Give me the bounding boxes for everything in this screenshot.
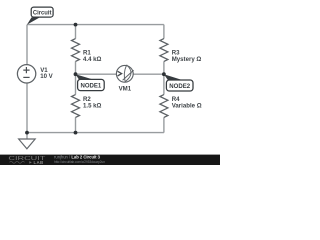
svg-text:NODE1: NODE1 <box>81 82 102 89</box>
wire voltmeter right <box>133 73 164 75</box>
resistor R3 <box>160 39 202 64</box>
node flag NODE2 <box>164 74 193 91</box>
wire left rail upper <box>26 25 28 65</box>
voltage source V1 <box>17 65 53 83</box>
svg-text:Mystery Ω: Mystery Ω <box>172 56 202 63</box>
voltmeter VM1 <box>116 65 133 93</box>
wire bottom rail <box>27 132 164 134</box>
node flag NODE1 <box>76 74 105 90</box>
wire middle branch lower lead <box>75 117 77 132</box>
svg-text:Variable Ω: Variable Ω <box>172 103 202 110</box>
wire middle branch upper lead <box>75 25 77 39</box>
resistor R4 <box>160 95 202 118</box>
node junction bottom middle <box>74 131 78 135</box>
svg-text:Circuit: Circuit <box>33 9 52 16</box>
footer bar <box>0 155 220 165</box>
wire top rail <box>27 24 164 26</box>
resistor R1 <box>72 39 102 64</box>
svg-text:htto://circuitlab.com/c/2953da: htto://circuitlab.com/c/2953dauzp2un <box>54 159 105 164</box>
wire right branch mid lead <box>163 61 165 94</box>
resistor R2 <box>72 95 102 118</box>
svg-text:NODE2: NODE2 <box>169 83 190 90</box>
wire voltmeter left <box>76 73 117 75</box>
footer logo CIRCUIT LAB <box>8 156 46 165</box>
node flag Circuit <box>27 7 53 25</box>
node junction NODE2 <box>162 72 166 76</box>
svg-text:10 V: 10 V <box>40 73 53 80</box>
svg-text:VM1: VM1 <box>119 86 132 93</box>
wire right branch lower lead <box>163 117 165 132</box>
svg-text:LAB: LAB <box>34 160 44 165</box>
node junction bottom left (ground) <box>25 131 29 135</box>
wire right branch upper lead <box>163 25 165 39</box>
svg-text:4.4 kΩ: 4.4 kΩ <box>83 56 102 63</box>
wire left rail lower <box>26 83 28 133</box>
ground <box>19 133 36 149</box>
svg-text:1.5 kΩ: 1.5 kΩ <box>83 103 102 110</box>
node junction NODE1 <box>74 72 78 76</box>
wire middle branch mid lead <box>75 61 77 94</box>
node junction top middle <box>74 23 78 27</box>
